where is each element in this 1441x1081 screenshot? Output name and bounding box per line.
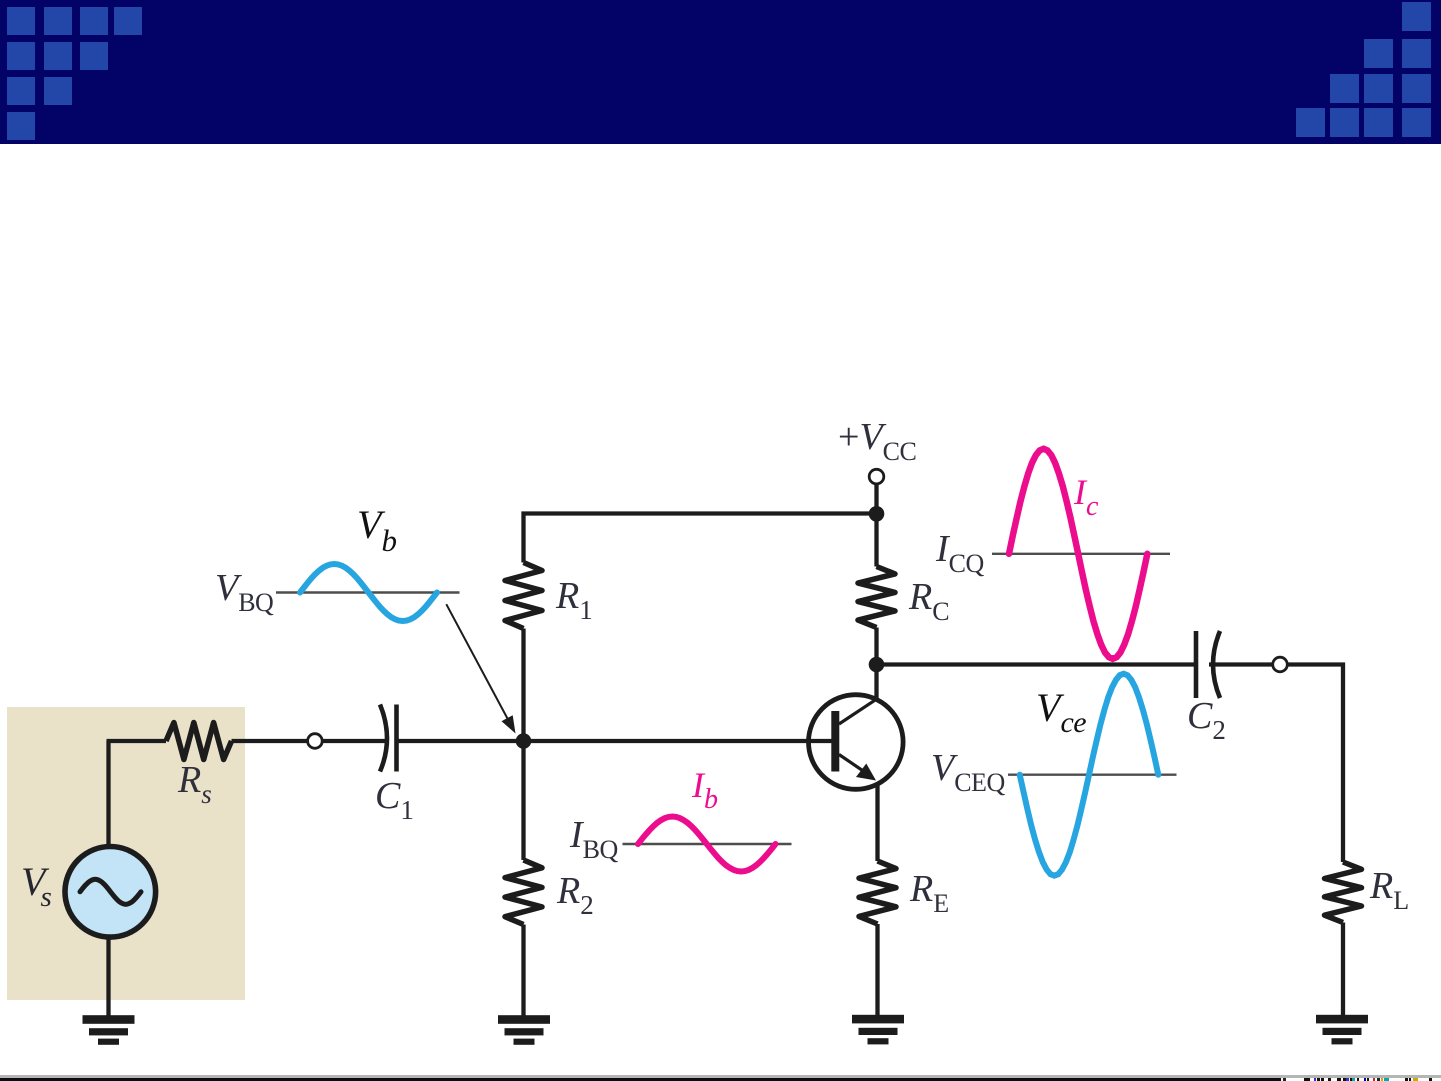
label R2	[557, 0, 593, 3]
Ic waveform sine	[1009, 449, 1147, 659]
transistor base wire inside	[807, 739, 832, 743]
Ib waveform sine	[638, 817, 776, 872]
ground under RL	[1316, 1015, 1368, 1024]
wire emitter down	[875, 783, 879, 861]
ground under RE	[852, 1015, 904, 1024]
wire Rs to input terminal	[232, 739, 308, 743]
wire collector node to C2	[877, 662, 1195, 666]
collector node dot	[869, 657, 885, 673]
arrow Vb to base node	[446, 604, 515, 733]
capacitor C1 curved plate	[380, 705, 387, 772]
resistor RL	[1325, 862, 1362, 923]
resistor RE	[859, 861, 896, 924]
wire RL to ground	[1341, 923, 1345, 1016]
Vce waveform axis	[1008, 774, 1177, 776]
wire terminal to C1	[322, 739, 385, 743]
input terminal circle	[308, 734, 323, 749]
bottom gray rule	[0, 1075, 1441, 1078]
label C2	[1187, 0, 1225, 3]
wire RE to ground	[875, 924, 879, 1016]
VCC terminal circle	[869, 469, 884, 484]
resistor R2	[505, 860, 542, 925]
label RL	[1370, 0, 1409, 4]
label Vb	[357, 0, 396, 3]
transistor collector stroke	[839, 699, 877, 724]
wire R1 top corner to VCC rail	[524, 514, 877, 742]
ground under Vs	[83, 1015, 135, 1024]
capacitor C2 curved plate	[1213, 631, 1220, 698]
Ib waveform axis	[623, 843, 792, 845]
wire C2 to output terminal	[1209, 662, 1273, 666]
Ic waveform axis	[992, 553, 1170, 555]
capacitor C1 flat plate	[394, 705, 399, 772]
label C1	[375, 0, 413, 3]
Vb waveform axis	[276, 591, 460, 593]
output terminal circle	[1273, 657, 1288, 672]
Vb waveform sine	[300, 564, 437, 621]
label Ib	[692, 0, 718, 4]
wire output terminal to RL	[1287, 665, 1343, 863]
label Rs	[178, 0, 211, 3]
resistor Rs	[166, 723, 232, 760]
label RC	[909, 0, 949, 4]
wire RC to collector node	[874, 628, 878, 701]
resistor RC	[858, 567, 895, 628]
wire base node to transistor base	[524, 739, 833, 743]
Vce waveform sine	[1020, 674, 1159, 876]
label IBQ	[570, 0, 618, 4]
bottom navy strip	[0, 1078, 1281, 1081]
wire R2 to ground	[521, 925, 525, 1017]
wire Vs top vertical	[106, 741, 110, 847]
node dot at base divider	[516, 733, 532, 749]
label Ic	[1074, 0, 1098, 4]
transistor emitter stroke	[839, 755, 864, 772]
transistor base bar	[831, 711, 839, 772]
source Vs circle	[65, 847, 156, 938]
source shading box	[7, 707, 245, 1000]
label ICQ	[936, 0, 984, 4]
resistor R1	[505, 563, 542, 629]
label VCEQ	[931, 0, 1005, 4]
source sine symbol	[80, 879, 141, 904]
label R1	[556, 0, 592, 3]
emitter arrowhead	[856, 764, 876, 781]
wire Vs bottom to ground	[106, 937, 110, 1016]
junction dot VCC rail	[869, 506, 885, 522]
header band	[0, 0, 1441, 144]
label +VCC	[838, 0, 916, 4]
label Vce	[1036, 0, 1086, 4]
wire VCC terminal to rail junction	[874, 484, 878, 567]
capacitor C2 flat plate	[1194, 631, 1199, 698]
wire Vs to Rs	[107, 739, 167, 743]
wire C1 to base node	[399, 739, 524, 743]
label RE	[910, 0, 949, 4]
transistor Q1 circle	[809, 695, 904, 790]
label VBQ	[215, 0, 273, 4]
wire node to R2	[521, 741, 525, 860]
label Vs	[21, 0, 56, 4]
ground under R2	[498, 1015, 550, 1024]
